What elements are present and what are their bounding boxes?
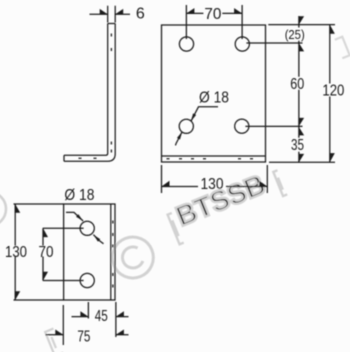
svg-text:70: 70 [39,244,54,261]
svg-text:120: 120 [322,82,344,99]
svg-text:70: 70 [204,6,221,23]
svg-text:35: 35 [291,137,304,154]
svg-text:6: 6 [136,6,145,23]
svg-text:130: 130 [5,244,27,261]
svg-text:130: 130 [201,176,224,193]
svg-text:45: 45 [95,308,108,325]
svg-text:Ø 18: Ø 18 [199,90,229,107]
svg-text:75: 75 [77,329,90,346]
svg-text:(25): (25) [285,27,305,42]
svg-text:Ø 18: Ø 18 [64,187,94,204]
svg-text:60: 60 [290,76,304,93]
